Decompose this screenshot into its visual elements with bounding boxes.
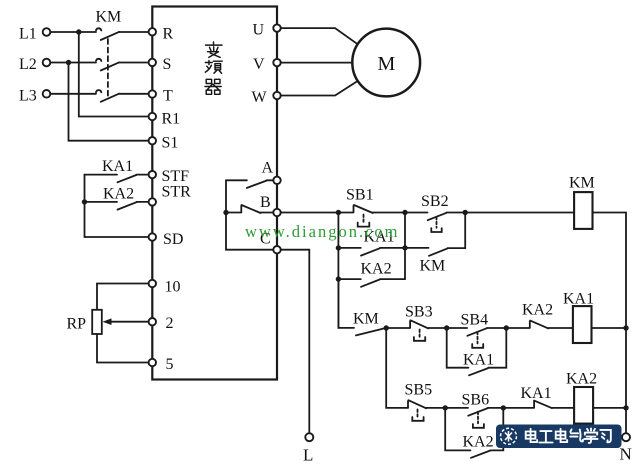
wire 10 to RP bbox=[97, 283, 149, 285]
wire A-B-C left bypass bbox=[226, 180, 273, 249]
KM linkage dashed line bbox=[107, 39, 109, 96]
node B bypass junction bbox=[223, 210, 228, 215]
pushbutton SB4 (NO) bbox=[447, 328, 507, 348]
node after SB6 bbox=[501, 405, 506, 410]
contactor KM main contact phase 2 bbox=[96, 59, 149, 71]
wire L2 junction to S1 bbox=[69, 63, 149, 141]
svg-text:S1: S1 bbox=[162, 135, 179, 152]
svg-text:L2: L2 bbox=[19, 56, 37, 73]
node row2 after KM bbox=[384, 325, 389, 330]
wire L2 to KM bbox=[50, 62, 96, 64]
svg-text:SB1: SB1 bbox=[346, 187, 374, 204]
svg-text:W: W bbox=[252, 89, 268, 106]
svg-text:SB5: SB5 bbox=[405, 382, 433, 399]
svg-text:KM: KM bbox=[569, 175, 595, 192]
node L1-R1 junction bbox=[76, 29, 81, 34]
terminal A bbox=[273, 177, 280, 184]
terminal 2 bbox=[149, 318, 156, 325]
terminal 5 bbox=[149, 359, 156, 366]
banner char 习 bbox=[600, 430, 611, 442]
svg-text:V: V bbox=[253, 56, 265, 73]
relay contact KA1 (parallel SB1) bbox=[338, 248, 405, 256]
vertical bus x338 bbox=[337, 213, 339, 328]
contactor KM main contact phase 1 bbox=[96, 28, 149, 40]
wire W to motor bbox=[281, 81, 358, 96]
terminal STF bbox=[149, 171, 156, 178]
motor M circle bbox=[352, 29, 420, 97]
banner char 电 bbox=[556, 429, 567, 442]
wire L1 junction to R1 bbox=[79, 32, 149, 117]
pushbutton SB3 (NC) bbox=[386, 320, 447, 341]
node KA2 junction bbox=[82, 199, 87, 204]
RP wiper arrow to terminal 2 bbox=[103, 318, 149, 325]
svg-text:5: 5 bbox=[166, 356, 174, 373]
relay contact KA2 (parallel SB6) bbox=[445, 408, 503, 458]
svg-text:KA1: KA1 bbox=[521, 385, 552, 402]
wire KM coil to right bus bbox=[593, 213, 627, 434]
terminal 10 bbox=[149, 280, 156, 287]
wire KA1 coil to bus bbox=[592, 327, 627, 329]
svg-text:SB3: SB3 bbox=[405, 304, 433, 321]
svg-text:SB2: SB2 bbox=[421, 193, 449, 210]
terminal L1 bbox=[43, 28, 51, 36]
inverter box U1 变频器 bbox=[152, 7, 277, 380]
contactor aux contact KM (self-hold, parallel SB2) bbox=[405, 248, 465, 256]
potentiometer RP bbox=[92, 284, 102, 363]
banner logo bbox=[501, 428, 517, 444]
node after SB1 bbox=[402, 210, 407, 215]
terminal N bbox=[622, 433, 630, 441]
terminal S1 bbox=[149, 137, 156, 144]
node KA1 coil bus bbox=[623, 325, 628, 330]
svg-text:KA2: KA2 bbox=[522, 302, 553, 319]
coil KA1 bbox=[573, 306, 592, 343]
terminal C bbox=[273, 246, 280, 253]
svg-text:KM: KM bbox=[420, 258, 446, 275]
svg-text:SD: SD bbox=[163, 231, 183, 248]
svg-text:KA1: KA1 bbox=[102, 158, 133, 175]
svg-text:R1: R1 bbox=[162, 111, 181, 128]
node KA1 row right bbox=[402, 245, 407, 250]
svg-text:SB4: SB4 bbox=[461, 312, 489, 329]
svg-text:U: U bbox=[253, 22, 265, 39]
vertical x465 bbox=[464, 213, 466, 249]
relay contact KA1 (NC interlock row3) bbox=[503, 401, 574, 409]
svg-text:KA2: KA2 bbox=[566, 371, 597, 388]
svg-text:SB6: SB6 bbox=[462, 392, 490, 409]
svg-text:KM: KM bbox=[96, 9, 122, 26]
pushbutton SB2 (NO start) bbox=[405, 213, 465, 233]
terminal L2 bbox=[43, 59, 51, 67]
watermark www.diangon.com bbox=[245, 222, 400, 241]
coil KM bbox=[574, 192, 592, 229]
watermark banner 电工电气学习 bbox=[496, 425, 622, 449]
node KA2 coil bus bbox=[623, 405, 628, 410]
wire L1 to KM bbox=[50, 31, 96, 33]
banner char 工 bbox=[539, 431, 552, 442]
svg-text:M: M bbox=[378, 53, 396, 75]
wire L3 to KM bbox=[50, 93, 96, 95]
banner char 学 bbox=[584, 428, 597, 443]
svg-text:KA1: KA1 bbox=[463, 352, 494, 369]
banner char 电 bbox=[526, 429, 537, 442]
relay contact KA2 (parallel SB1) bbox=[338, 279, 405, 287]
terminal U bbox=[273, 24, 280, 31]
terminal R1 bbox=[149, 113, 156, 120]
label 变频器 (vertical) bbox=[205, 42, 222, 94]
relay contact A (inverter output A) bbox=[226, 180, 273, 188]
relay contact KA1 (to STF) bbox=[85, 175, 149, 183]
node after SB4 bbox=[504, 325, 509, 330]
svg-text:L: L bbox=[303, 446, 313, 464]
svg-text:RP: RP bbox=[67, 315, 87, 332]
node KA2 row left bbox=[336, 276, 341, 281]
wire C to L bbox=[281, 250, 310, 434]
relay contact B (inverter output B) bbox=[226, 205, 273, 213]
terminal SD bbox=[149, 233, 156, 240]
svg-text:2: 2 bbox=[166, 315, 174, 332]
node after SB3 bbox=[444, 325, 449, 330]
pushbutton SB5 (NC) bbox=[408, 400, 445, 421]
svg-text:STF: STF bbox=[162, 168, 190, 185]
wire V to motor bbox=[281, 62, 353, 64]
wire 5 to RP bbox=[97, 362, 149, 364]
terminal V bbox=[273, 59, 280, 66]
wire row2 to row3 bbox=[386, 328, 408, 408]
terminal STR bbox=[149, 198, 156, 205]
node L2-S1 junction bbox=[66, 60, 71, 65]
relay contact KA2 (to STR) bbox=[85, 202, 149, 210]
banner char 气 bbox=[570, 429, 583, 441]
svg-text:KM: KM bbox=[353, 311, 379, 328]
svg-text:KA2: KA2 bbox=[361, 261, 392, 278]
svg-text:KA2: KA2 bbox=[103, 185, 134, 202]
terminal L bbox=[305, 433, 313, 441]
wire row1 to KM coil bbox=[465, 212, 574, 214]
pushbutton SB6 (NO) bbox=[445, 408, 503, 428]
contactor KM main contact phase 3 bbox=[96, 90, 149, 102]
terminal B bbox=[273, 209, 280, 216]
terminal R bbox=[149, 28, 156, 35]
wire U to motor bbox=[281, 28, 358, 44]
node after SB2 bbox=[463, 210, 468, 215]
svg-text:L1: L1 bbox=[19, 26, 37, 43]
wire left bus STF-STR-SD bbox=[85, 175, 149, 237]
svg-text:N: N bbox=[620, 445, 632, 464]
svg-text:KA2: KA2 bbox=[463, 434, 494, 451]
coil KA2 bbox=[574, 387, 593, 424]
svg-text:S: S bbox=[163, 56, 172, 73]
node after SB5 bbox=[443, 405, 448, 410]
terminal W bbox=[273, 92, 280, 99]
pushbutton SB1 (NC stop) bbox=[338, 205, 405, 227]
svg-text:A: A bbox=[262, 160, 274, 177]
wire KA2 coil to bus bbox=[593, 407, 626, 409]
vertical x405 bbox=[404, 213, 406, 280]
svg-text:T: T bbox=[163, 88, 173, 105]
svg-text:10: 10 bbox=[165, 279, 181, 296]
node control row start bbox=[336, 210, 341, 215]
relay contact KA1 (parallel SB4) bbox=[447, 328, 507, 375]
svg-text:www.diangon.com: www.diangon.com bbox=[245, 222, 400, 241]
svg-text:B: B bbox=[260, 194, 271, 211]
terminal S bbox=[149, 59, 156, 66]
node KA1 row left bbox=[336, 245, 341, 250]
svg-text:STR: STR bbox=[162, 184, 192, 201]
wire B to control row bbox=[281, 212, 339, 214]
terminal L3 bbox=[43, 90, 51, 98]
svg-text:KA1: KA1 bbox=[563, 291, 594, 308]
svg-text:L3: L3 bbox=[19, 87, 37, 104]
terminal T bbox=[149, 90, 156, 97]
wire bus down to row2 bbox=[338, 279, 354, 328]
contactor aux contact KM (row2) bbox=[356, 328, 385, 335]
relay contact KA2 (NC interlock row2) bbox=[506, 321, 574, 329]
svg-text:R: R bbox=[163, 26, 174, 43]
